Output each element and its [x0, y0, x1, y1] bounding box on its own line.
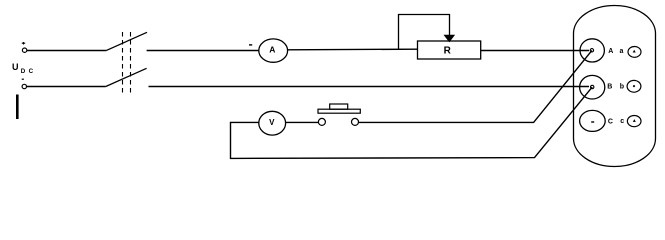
svg-text:A: A: [269, 45, 275, 55]
svg-text:C: C: [608, 119, 613, 126]
svg-text:A: A: [608, 48, 613, 55]
svg-text:a: a: [620, 48, 624, 55]
svg-text:c: c: [620, 118, 624, 125]
svg-text:DC: DC: [21, 68, 37, 75]
svg-text:V: V: [269, 118, 275, 127]
svg-text:b: b: [620, 83, 624, 90]
svg-text:R: R: [444, 46, 452, 57]
svg-text:B: B: [607, 83, 612, 90]
svg-text:U: U: [12, 62, 19, 72]
